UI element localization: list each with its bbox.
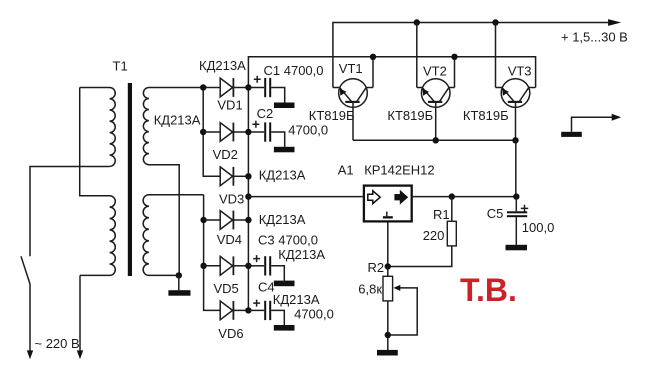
svg-text:100,0: 100,0 xyxy=(522,220,555,235)
wire: anode bus VD1-VD3 xyxy=(203,88,220,177)
node: bus junction VD4 xyxy=(245,217,251,223)
wire: regulator output to base/C5 node xyxy=(413,196,517,198)
wire: regulator input xyxy=(248,196,362,198)
capacitor C2 xyxy=(248,122,284,146)
polarity + (C1) xyxy=(254,76,261,83)
wire: mains input line 2 xyxy=(79,275,81,351)
node: secondary center tap junction xyxy=(176,272,182,278)
transformer T1 primary winding upper section xyxy=(80,88,116,167)
node: VD2 anode junction xyxy=(200,129,206,135)
wire: base rail to regulator output node xyxy=(515,140,517,196)
capacitor C4 xyxy=(248,301,284,325)
svg-text:Т1: Т1 xyxy=(113,59,128,74)
ground: R2 xyxy=(377,350,398,356)
node: VT3 base junction xyxy=(512,137,518,143)
node: bus junction VD1/C1 xyxy=(245,84,251,90)
diode VD5 xyxy=(220,256,248,275)
wire: base rail xyxy=(353,139,516,141)
svg-text:С4: С4 xyxy=(258,280,275,295)
wire: primary link vertical xyxy=(80,88,110,196)
svg-text:VT1: VT1 xyxy=(339,61,363,76)
svg-text:Т.В.: Т.В. xyxy=(460,272,517,308)
svg-text:~ 220 В: ~ 220 В xyxy=(35,336,80,351)
arrow: negative output terminal xyxy=(612,114,621,121)
capacitor C3 xyxy=(248,256,284,281)
wire: negative output xyxy=(572,117,613,132)
transformer T1 secondary winding upper xyxy=(143,88,179,276)
wire: center tap to ground xyxy=(178,275,180,290)
R2 wiper arm xyxy=(388,288,417,335)
svg-text:R2: R2 xyxy=(368,260,385,275)
svg-text:КД213А: КД213А xyxy=(259,212,306,227)
svg-text:КД213А: КД213А xyxy=(259,167,306,182)
svg-text:КД213А: КД213А xyxy=(273,292,320,307)
svg-text:VT2: VT2 xyxy=(423,63,447,78)
svg-text:4700,0: 4700,0 xyxy=(294,307,334,322)
svg-text:VD5: VD5 xyxy=(214,281,239,296)
svg-text:VD3: VD3 xyxy=(219,192,244,207)
node: VD5 anode junction xyxy=(200,263,206,269)
switch SA1 blade xyxy=(21,256,30,284)
transistor VT1 xyxy=(333,79,373,141)
diode VD2 xyxy=(220,123,248,142)
node: adj junction xyxy=(385,263,391,269)
op-amp style IC A1 KR142EN12 box xyxy=(364,186,412,222)
transformer T1 core xyxy=(128,83,132,276)
capacitor C1 xyxy=(248,78,284,103)
svg-text:VT3: VT3 xyxy=(508,63,532,78)
transformer T1 secondary winding lower xyxy=(143,195,203,276)
ground: transformer center tap xyxy=(168,290,190,296)
polarity + (C5) xyxy=(521,205,528,212)
wire: anode bus VD4-VD6 xyxy=(204,195,221,311)
wire: regulator adj pin down xyxy=(387,223,389,267)
node: bus junction regulator input xyxy=(245,193,251,199)
svg-text:КД213А: КД213А xyxy=(199,58,246,73)
wire: secondary top to VD1 anode xyxy=(149,87,220,89)
svg-text:КТ819Б: КТ819Б xyxy=(387,108,433,123)
node: VD1 anode junction xyxy=(200,84,206,90)
svg-text:С1 4700,0: С1 4700,0 xyxy=(264,63,324,78)
resistor R2 (potentiometer) xyxy=(383,267,393,351)
diode VD6 xyxy=(220,301,248,320)
node: bus junction VD2/C2 xyxy=(245,129,251,135)
wire: VD2 anode xyxy=(203,131,220,133)
svg-text:КТ819Б: КТ819Б xyxy=(309,108,355,123)
svg-text:220: 220 xyxy=(423,228,445,243)
svg-text:+ 1,5...30 В: + 1,5...30 В xyxy=(561,30,628,45)
node: top rail VT3 junction xyxy=(492,19,498,25)
R2 wiper arrowhead xyxy=(393,285,400,291)
wire: VD4 anode xyxy=(204,219,221,221)
arrow: mains input terminal 2 xyxy=(77,350,83,359)
node: R2 bottom junction xyxy=(385,332,391,338)
svg-text:VD4: VD4 xyxy=(217,232,242,247)
wire: VT2 emitter riser xyxy=(416,23,418,88)
node: collector rail VT1 junction xyxy=(370,54,376,60)
ground: C3 xyxy=(274,281,295,287)
ground: C1 xyxy=(274,103,295,109)
transistor VT2 xyxy=(417,79,455,141)
svg-text:КР142ЕН12: КР142ЕН12 xyxy=(364,163,434,178)
svg-text:VD6: VD6 xyxy=(218,326,243,341)
svg-text:R1: R1 xyxy=(433,207,450,222)
ground: C4 xyxy=(274,325,295,331)
wire: mains input line 1 (horizontal + vertical to switch) xyxy=(30,167,110,257)
wire: rectifier positive bus xyxy=(248,57,535,311)
ground: C5 xyxy=(506,245,528,251)
wire: mains input line 1 lower segment xyxy=(29,284,31,351)
wire: output rail (+) with emitters xyxy=(333,23,612,88)
IC A1 input arrow symbol xyxy=(368,191,380,204)
node: output/C5 junction xyxy=(513,193,519,199)
polarity + (C4) xyxy=(253,300,260,307)
svg-text:КД213А: КД213А xyxy=(154,113,201,128)
transistor VT3 xyxy=(496,79,536,141)
node: bus junction VD5/C3 xyxy=(245,263,251,269)
polarity + (C3) xyxy=(253,255,260,262)
arrow: mains input terminal 1 xyxy=(27,350,33,359)
node: R1 top junction xyxy=(449,193,455,199)
wire: VD5 anode xyxy=(204,265,221,267)
IC A1 output arrow symbol xyxy=(394,190,408,205)
node: collector rail VT2 junction xyxy=(451,54,457,60)
svg-text:6,8к: 6,8к xyxy=(358,282,382,297)
diode VD4 xyxy=(220,211,248,230)
diode VD3 xyxy=(220,167,248,186)
svg-text:КТ819Б: КТ819Б xyxy=(463,108,509,123)
ground: negative output xyxy=(561,132,582,137)
wire: VT2 collector riser xyxy=(454,57,456,88)
polarity + (C2) xyxy=(252,121,259,128)
svg-text:VD1: VD1 xyxy=(217,98,242,113)
wire: VT3 emitter riser xyxy=(495,23,497,88)
wire: VT1 collector riser xyxy=(372,57,374,88)
capacitor C5 xyxy=(507,197,527,245)
node: VD4 anode junction xyxy=(200,217,206,223)
svg-text:С3 4700,0: С3 4700,0 xyxy=(258,233,318,248)
diode VD1 xyxy=(220,78,248,97)
node: top rail VT2 junction xyxy=(414,19,420,25)
node: VT2 base junction xyxy=(433,137,439,143)
svg-text:VD2: VD2 xyxy=(213,147,238,162)
IC A1 common pin symbol xyxy=(386,212,388,217)
svg-text:С5: С5 xyxy=(487,206,504,221)
node: bus junction VD3 xyxy=(245,173,251,179)
ground: C2 xyxy=(274,147,295,153)
svg-text:А1: А1 xyxy=(338,162,354,177)
svg-text:КД213А: КД213А xyxy=(278,247,325,262)
svg-text:С2: С2 xyxy=(257,106,274,121)
transformer T1 primary winding lower section xyxy=(80,196,115,276)
resistor R1 xyxy=(388,197,457,267)
svg-text:4700,0: 4700,0 xyxy=(288,123,328,138)
arrow: positive output terminal xyxy=(608,19,621,26)
node: bus junction VD6/C4 xyxy=(245,307,251,313)
